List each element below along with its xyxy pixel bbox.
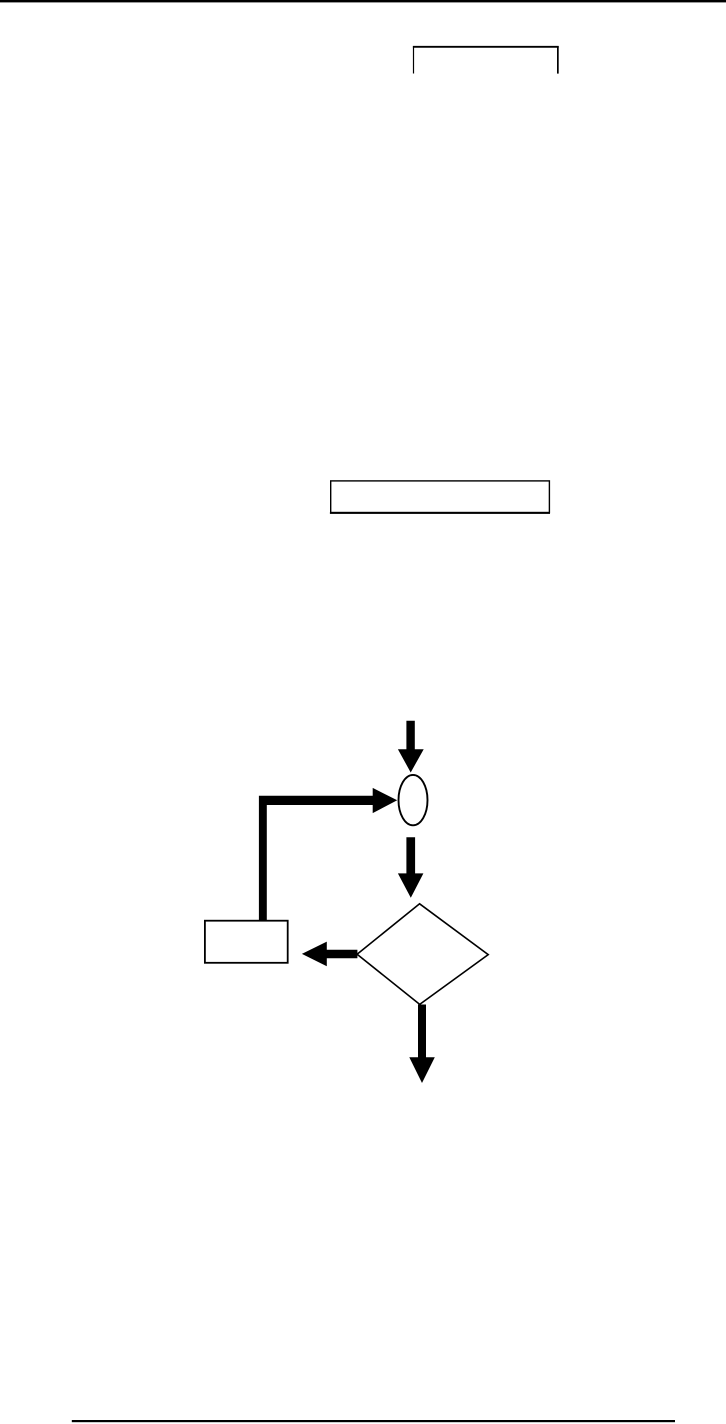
header rule (0, 0, 726, 2)
open header cell (top-right, three-sided box) (413, 46, 559, 48)
loop-back arrow (L-shaped, from process box up and right into ellipse) (259, 788, 397, 921)
flow arrow A4 (down, out of decision diamond) (409, 1005, 435, 1084)
entry-field rectangle thick bottom edge (330, 512, 550, 514)
flow arrow A1 (down, into connector ellipse) (398, 721, 424, 773)
flow arrow A3 (left, decision to process box) (302, 942, 358, 967)
footer rule (72, 1420, 675, 1422)
connector ellipse (399, 775, 428, 825)
decision diamond (357, 904, 488, 1005)
process box (205, 921, 288, 963)
entry-field rectangle (mid page) (331, 481, 550, 513)
flow arrow A2 (down, ellipse to decision diamond) (398, 837, 424, 898)
